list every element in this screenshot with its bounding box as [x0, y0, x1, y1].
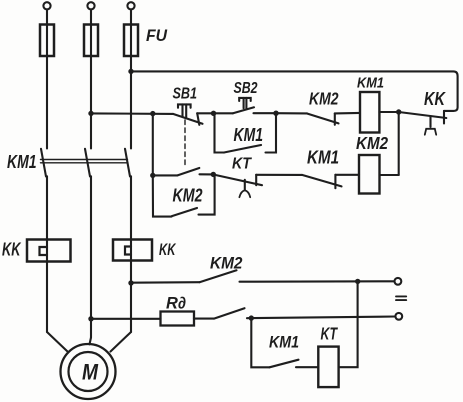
node row2 left [150, 173, 155, 178]
contact KM1 NC row2 [302, 175, 359, 188]
wire L3 mid [130, 176, 132, 332]
svg-text:KM1: KM1 [357, 75, 384, 92]
svg-text:M: M [82, 360, 99, 385]
coil KM2 [359, 155, 380, 194]
contact after Rd [194, 308, 251, 318]
auxiliary contact KM2 branch row3 [153, 174, 215, 216]
button SB1 NC contact [173, 104, 214, 124]
terminal DC minus [395, 313, 402, 320]
time contact KT row2 [213, 175, 302, 198]
node row1 junction left [150, 111, 155, 116]
dashed mechanical link SB1 [184, 120, 186, 167]
svg-text:KK: KK [159, 240, 177, 259]
thermal element KK1 [27, 240, 71, 262]
wire L1 top [46, 9, 48, 148]
node L2 to control row1 [88, 111, 93, 116]
contact KM2 NC row1 [307, 113, 360, 125]
wire L1 to motor [47, 332, 68, 352]
svg-text:KM2: KM2 [210, 254, 243, 273]
svg-text:KM2: KM2 [356, 133, 388, 153]
contact SB1-linked NO row2 [153, 168, 214, 175]
node row1 C [396, 109, 401, 114]
contactor KM1 main contacts [41, 149, 131, 177]
svg-text:SB1: SB1 [173, 86, 198, 103]
label = sign [396, 296, 406, 300]
svg-text:KM1: KM1 [307, 148, 339, 168]
coil KM1 [360, 92, 379, 133]
terminal L1 [43, 2, 50, 9]
auxiliary contact KM1 (holding) branch [215, 113, 277, 152]
thermal contact KK NC [399, 111, 447, 135]
vertical link row1 to row2 left [152, 114, 154, 176]
terminal DC plus [395, 278, 402, 285]
contact KM2 braking [200, 270, 395, 282]
wire KT coil right and up [339, 281, 358, 367]
KT branch: down from node [251, 318, 269, 367]
svg-text:KT: KT [321, 324, 338, 344]
svg-text:KM2: KM2 [173, 186, 203, 206]
motor M [61, 344, 116, 399]
terminal L3 [127, 2, 134, 9]
wire L2 top [90, 9, 92, 148]
coil KT [318, 347, 338, 388]
wire coil KM1 to node [379, 111, 398, 113]
svg-text:KK: KK [424, 89, 447, 109]
node L3 to braking row [128, 280, 133, 285]
fuse FU1 [40, 25, 54, 57]
wire row1 to KM2 contact [276, 112, 307, 114]
resistor row wire left [91, 318, 161, 320]
wire control top rail [131, 71, 458, 111]
resistor Rd [161, 312, 195, 326]
svg-text:FU: FU [146, 27, 168, 45]
node on L3 feeding control rail [128, 69, 133, 74]
node resistor row [249, 315, 254, 320]
svg-text:KM1: KM1 [7, 151, 37, 172]
wire resistor row right [251, 317, 395, 319]
wire L2 to motor [90, 338, 92, 345]
thermal element KK2 [113, 240, 152, 261]
wire L3 top [130, 9, 132, 148]
contact KM1 KT-branch [270, 360, 319, 368]
vertical link row1 to row2 right [398, 112, 400, 175]
fuse FU2 [84, 25, 98, 57]
terminal L2 [87, 2, 94, 9]
wire control row1 left [91, 112, 173, 115]
svg-text:SB2: SB2 [234, 80, 258, 97]
svg-text:KM1: KM1 [234, 125, 264, 145]
svg-text:KK: KK [2, 240, 22, 260]
node L2 to braking resistor row [88, 316, 93, 321]
wire L1 mid [46, 176, 48, 332]
wire L2 mid [90, 176, 92, 337]
button SB2 NO contact [214, 98, 277, 113]
node row1 A [211, 111, 216, 116]
fuse FU3 [124, 25, 138, 57]
wire L3 to motor [111, 332, 132, 352]
svg-text:KT: KT [232, 156, 252, 173]
svg-text:R∂: R∂ [166, 295, 186, 313]
wire coil KM2 to right vertical [380, 174, 399, 176]
svg-text:KM1: KM1 [269, 333, 299, 352]
braking row: node on L3 [131, 281, 200, 284]
node row2 mid [211, 172, 216, 177]
node row1 B [273, 111, 278, 116]
node braking row right [355, 279, 360, 284]
svg-text:KM2: KM2 [309, 89, 339, 109]
